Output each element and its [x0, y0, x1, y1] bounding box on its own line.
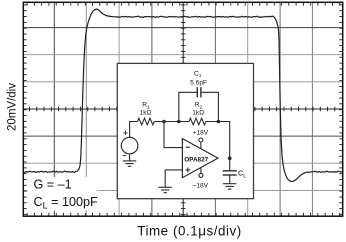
op-amp inverting input - sign: [186, 146, 190, 148]
svg-text:1kΩ: 1kΩ: [192, 110, 204, 117]
svg-text:G = –1: G = –1: [34, 177, 72, 191]
svg-text:+18V: +18V: [193, 130, 209, 137]
waveform trace: [23, 9, 343, 182]
-18V supply terminal: [200, 167, 202, 173]
capacitor CL plates: [223, 171, 237, 175]
svg-text:Time (0.1μs/div): Time (0.1μs/div): [137, 223, 242, 238]
wire: capacitor right side down to node C: [202, 92, 219, 121]
resistor R2: [189, 118, 206, 125]
node A junction dot (to inverting input): [162, 120, 166, 124]
svg-text:5.6pF: 5.6pF: [190, 79, 207, 86]
wire: feedback capacitor branch left/up: [179, 92, 197, 121]
source - polarity: [123, 155, 127, 157]
op-amp U1 triangle: [182, 139, 218, 178]
svg-text:1kΩ: 1kΩ: [140, 110, 152, 117]
source V1 (circle): [121, 137, 138, 154]
ground (CL): [223, 184, 236, 189]
resistor R1: [138, 118, 155, 125]
ground (source): [123, 161, 136, 166]
node C junction dot: [217, 120, 221, 124]
wire: source to R1 and main input row: [130, 122, 138, 138]
wire: node A down to op-amp inverting input: [164, 122, 182, 148]
inset schematic box: [117, 63, 253, 198]
wire R2 to node C and over to output drop: [206, 122, 230, 159]
ground (noninverting input): [159, 187, 172, 192]
wire: noninverting input to ground: [165, 170, 182, 187]
wire: CL bottom to ground: [229, 175, 231, 184]
+18V supply terminal: [200, 142, 202, 149]
output node junction dot: [228, 156, 232, 160]
svg-text:OPA827: OPA827: [184, 157, 208, 164]
capacitor C1 plates: [197, 87, 201, 97]
wire R1 to node A: [154, 121, 189, 123]
node B junction dot (feedback C branch): [177, 120, 181, 124]
op-amp noninverting input + sign: [185, 168, 190, 173]
wire: output node down to CL: [229, 158, 231, 170]
svg-text:–18V: –18V: [193, 183, 209, 190]
source + polarity: [123, 131, 127, 135]
svg-text:20mV/div: 20mV/div: [7, 83, 19, 131]
wire: source bottom to ground: [129, 154, 131, 161]
annotation white halo: [28, 177, 98, 211]
svg-text:L: L: [243, 174, 246, 180]
